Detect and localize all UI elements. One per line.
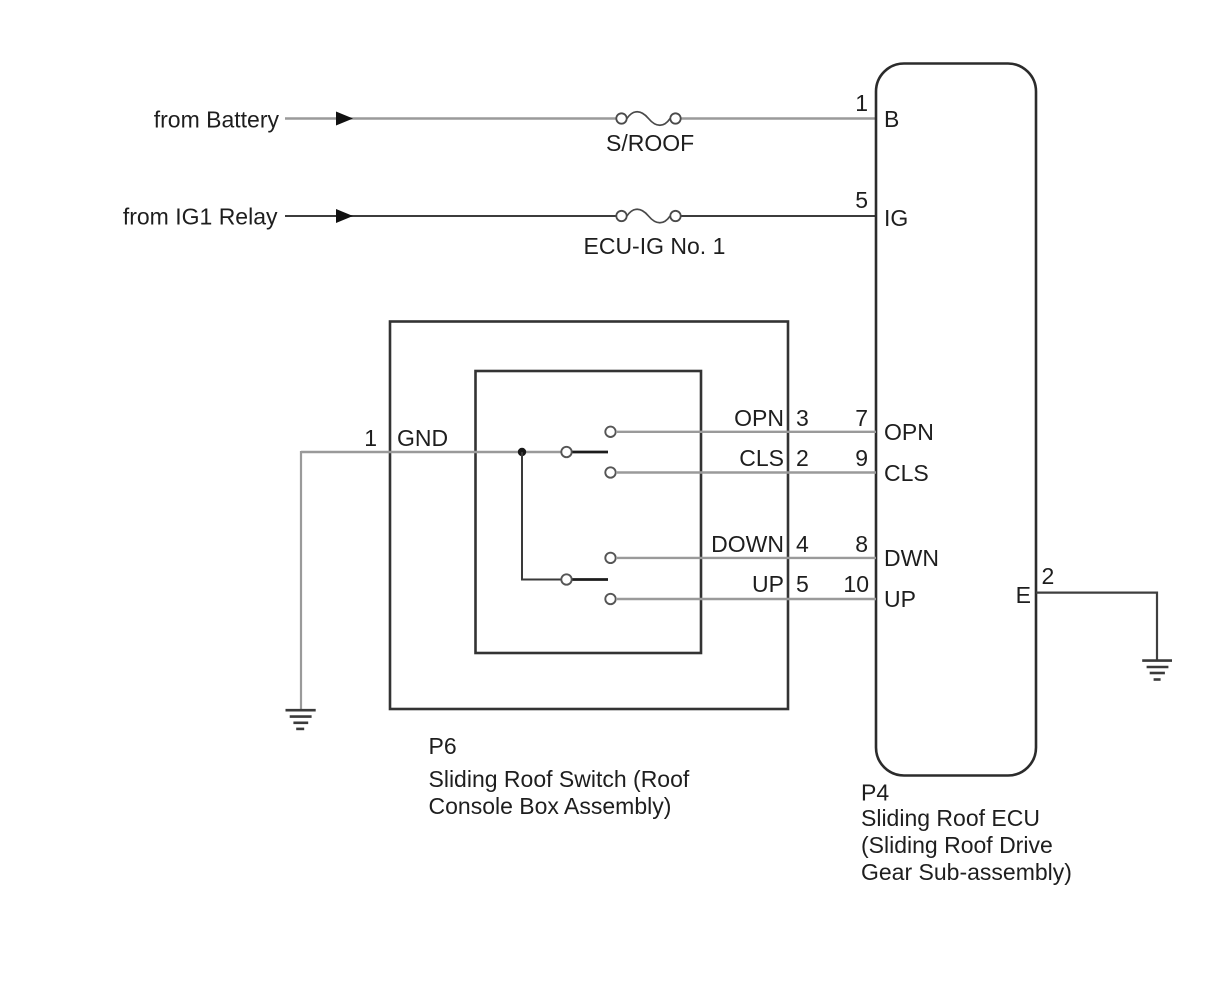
svg-text:OPN: OPN <box>884 419 934 445</box>
svg-text:3: 3 <box>796 405 809 431</box>
fixed contact OPN <box>605 427 615 437</box>
svg-text:5: 5 <box>796 571 809 597</box>
junction node on GND wire <box>518 448 526 456</box>
svg-text:7: 7 <box>855 405 868 431</box>
svg-text:OPN: OPN <box>734 405 784 431</box>
svg-text:DWN: DWN <box>884 545 939 571</box>
switch lever (upper) <box>573 451 609 454</box>
svg-text:1: 1 <box>855 90 868 116</box>
fuse ECU-IG No. 1 <box>616 209 680 223</box>
svg-text:(Sliding Roof Drive: (Sliding Roof Drive <box>861 832 1053 858</box>
fixed contact UP <box>605 594 615 604</box>
svg-text:UP: UP <box>884 586 916 612</box>
switch inner box <box>476 371 702 653</box>
wire from Battery to ECU pin B <box>285 117 876 119</box>
switch pole contact (lower, DOWN/UP) <box>561 574 571 584</box>
svg-text:DOWN: DOWN <box>711 531 784 557</box>
svg-text:Console Box Assembly): Console Box Assembly) <box>429 793 672 819</box>
switch outer box P6 <box>390 322 788 710</box>
arrow on IG1 wire <box>336 209 353 223</box>
fuse S/ROOF <box>616 112 680 126</box>
wire OPN (switch pin 3 to ECU pin 7) <box>616 431 876 433</box>
svg-text:9: 9 <box>855 445 868 471</box>
svg-text:Gear Sub-assembly): Gear Sub-assembly) <box>861 859 1072 885</box>
svg-text:B: B <box>884 106 899 132</box>
wire GND into switch <box>301 451 562 453</box>
svg-text:2: 2 <box>796 445 809 471</box>
svg-text:IG: IG <box>884 205 908 231</box>
svg-text:2: 2 <box>1042 563 1055 589</box>
wire DOWN (switch pin 4 to ECU pin 8) <box>616 557 876 559</box>
wire UP (switch pin 5 to ECU pin 10) <box>616 598 876 600</box>
svg-text:Sliding Roof ECU: Sliding Roof ECU <box>861 805 1040 831</box>
wire GND down to ground <box>300 451 302 710</box>
svg-text:5: 5 <box>855 187 868 213</box>
connector P4 Sliding Roof ECU box <box>876 64 1036 776</box>
arrow on battery wire <box>336 112 353 126</box>
ground (switch side) <box>286 710 316 729</box>
fixed contact CLS <box>605 467 615 477</box>
svg-text:from IG1 Relay: from IG1 Relay <box>123 204 278 230</box>
fixed contact DOWN <box>605 553 615 563</box>
svg-text:CLS: CLS <box>884 460 929 486</box>
wire junction down to lower switch pole <box>522 452 562 580</box>
svg-text:GND: GND <box>397 425 448 451</box>
wire E to ground <box>1036 593 1157 660</box>
svg-text:4: 4 <box>796 531 809 557</box>
wire from IG1 Relay to ECU pin IG <box>285 215 876 217</box>
svg-text:Sliding Roof Switch (Roof: Sliding Roof Switch (Roof <box>429 766 690 792</box>
switch pole contact (upper, OPN/CLS) <box>561 447 571 457</box>
svg-text:P6: P6 <box>429 733 457 759</box>
switch lever (lower) <box>573 578 609 581</box>
svg-text:P4: P4 <box>861 780 889 806</box>
wire CLS (switch pin 2 to ECU pin 9) <box>616 471 876 473</box>
svg-text:8: 8 <box>855 531 868 557</box>
svg-text:S/ROOF: S/ROOF <box>606 130 694 156</box>
svg-text:from Battery: from Battery <box>154 107 280 133</box>
svg-text:E: E <box>1016 582 1031 608</box>
svg-text:UP: UP <box>752 571 784 597</box>
svg-text:CLS: CLS <box>739 445 784 471</box>
svg-text:ECU-IG No. 1: ECU-IG No. 1 <box>584 233 726 259</box>
svg-text:1: 1 <box>364 425 377 451</box>
ground (ECU side) <box>1142 661 1172 680</box>
svg-text:10: 10 <box>843 571 869 597</box>
